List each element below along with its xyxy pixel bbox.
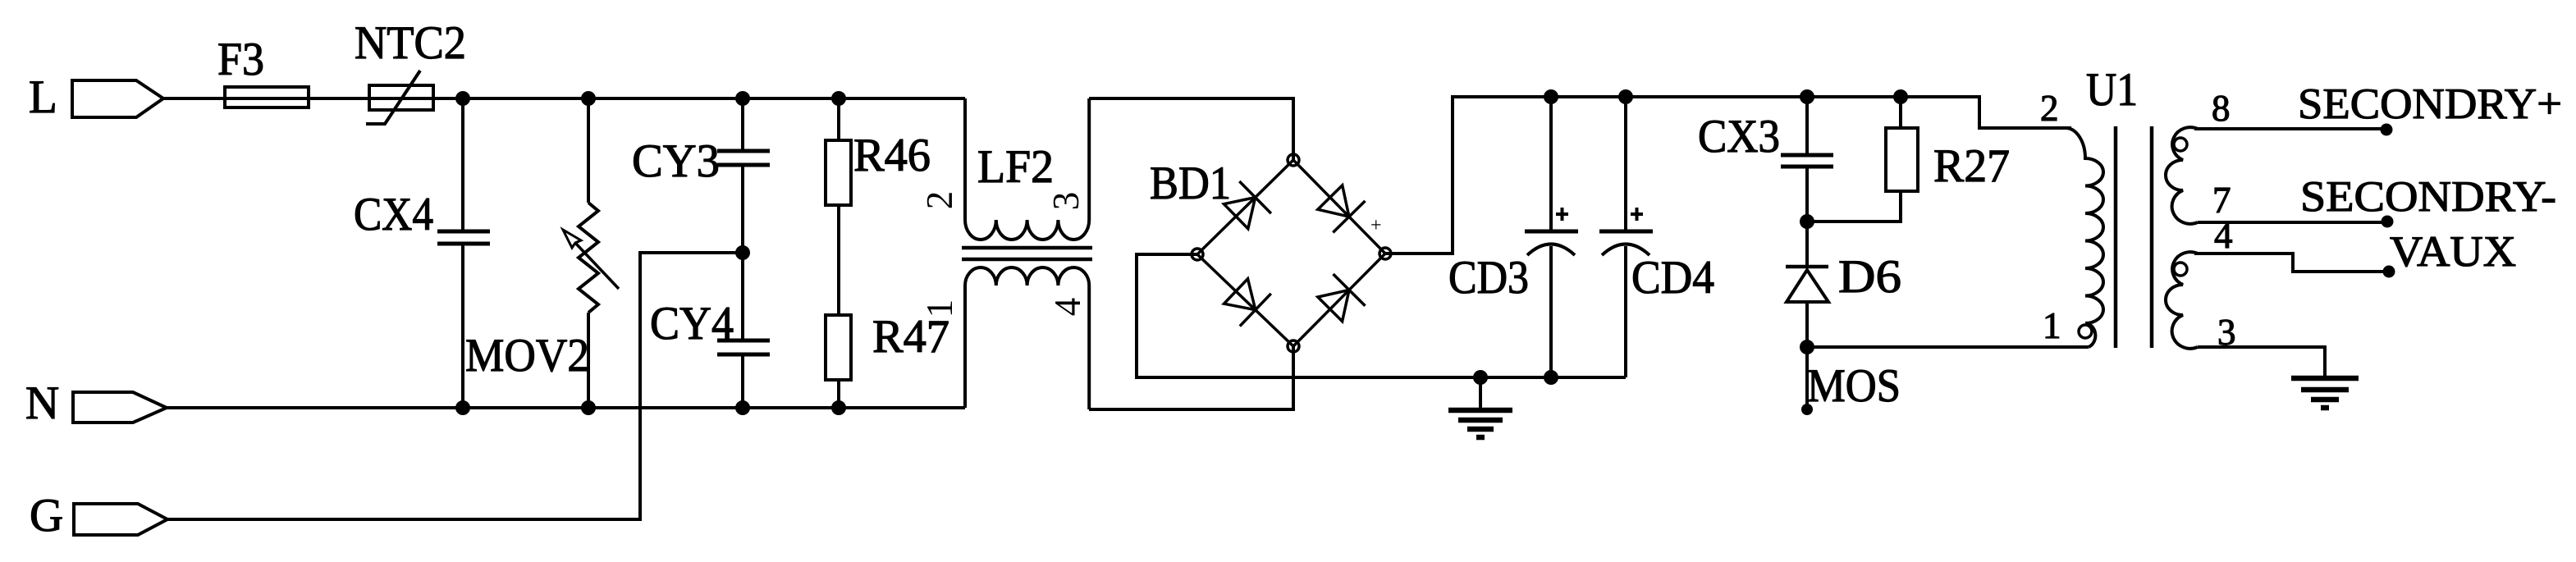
diode BD1 upper-right xyxy=(1318,185,1366,233)
junction dot CD4 top xyxy=(1618,89,1633,104)
svg-text:MOV2: MOV2 xyxy=(465,330,589,382)
svg-text:CX4: CX4 xyxy=(354,189,433,240)
resistor R27 xyxy=(1807,97,1918,222)
svg-text:BD1: BD1 xyxy=(1150,158,1231,209)
node SECONDRY- dot xyxy=(2382,216,2394,228)
U1 core xyxy=(2116,126,2152,348)
svg-text:R47: R47 xyxy=(872,311,949,363)
node VAUX dot xyxy=(2383,266,2395,278)
junction dot D6-pin1 xyxy=(1800,340,1814,354)
capacitor CD4 xyxy=(1599,97,1653,377)
wire pin7 SECONDRY- xyxy=(2198,221,2387,224)
wire pin3 to ground xyxy=(2198,347,2325,378)
capacitor CX4 xyxy=(437,98,490,408)
junction dot gnd xyxy=(1473,370,1488,385)
svg-text:+: + xyxy=(1370,215,1382,236)
wire bridge plus to top rail xyxy=(1385,97,2071,254)
node MOS terminal dot xyxy=(1801,404,1813,415)
junction dot R27 top xyxy=(1893,89,1908,104)
diode BD1 lower-right xyxy=(1318,274,1366,322)
svg-text:U1: U1 xyxy=(2086,64,2138,116)
U1 top secondary phase circle xyxy=(2174,138,2187,151)
junction dot CX3 top xyxy=(1800,89,1814,104)
wire N rail xyxy=(167,406,965,409)
ground primary xyxy=(1448,377,1512,437)
U1 pin1 phase circle xyxy=(2079,325,2092,338)
svg-text:CY3: CY3 xyxy=(632,135,720,187)
capacitor CX3 xyxy=(1781,97,1833,222)
diode D6 xyxy=(1786,222,1828,409)
junction dot CD3 bottom xyxy=(1544,370,1558,385)
svg-text:SECONDRY-: SECONDRY- xyxy=(2300,173,2556,221)
svg-text:1: 1 xyxy=(2043,305,2061,346)
thermistor NTC2 xyxy=(366,71,433,124)
inductor LF2 top winding xyxy=(965,98,1089,240)
svg-text:2: 2 xyxy=(2040,88,2059,129)
ground secondary xyxy=(2291,378,2359,408)
svg-text:F3: F3 xyxy=(217,34,264,85)
junction dot L-R46 xyxy=(831,91,846,106)
svg-text:NTC2: NTC2 xyxy=(355,17,466,69)
svg-text:4: 4 xyxy=(1047,298,1088,317)
wire pin8 SECONDRY+ xyxy=(2194,127,2386,130)
wire G to CY junction xyxy=(167,253,743,519)
svg-text:3: 3 xyxy=(1045,192,1087,211)
diode BD1 upper-left xyxy=(1224,181,1271,229)
wire pin4 VAUX xyxy=(2194,254,2389,272)
svg-text:CX3: CX3 xyxy=(1698,111,1780,162)
junction dot G-CY xyxy=(735,245,750,260)
fuse F3 xyxy=(225,87,309,107)
svg-text:D6: D6 xyxy=(1838,251,1901,303)
svg-text:SECONDRY+: SECONDRY+ xyxy=(2298,80,2562,128)
capacitor CY3 xyxy=(717,98,770,340)
bridge terminal top xyxy=(1288,154,1299,166)
connector L xyxy=(72,80,163,117)
wire LF2 pin3 to bridge top xyxy=(1089,98,1293,160)
bridge terminal left xyxy=(1192,249,1203,260)
junction dot CD3 top xyxy=(1544,89,1558,104)
wire MOS to U1 pin1 xyxy=(1807,345,2089,349)
svg-text:CD4: CD4 xyxy=(1631,252,1714,304)
junction dot N-R47 xyxy=(831,400,846,415)
svg-text:LF2: LF2 xyxy=(977,141,1054,193)
svg-text:N: N xyxy=(25,377,59,429)
resistor R46 xyxy=(826,98,851,315)
transformer U1 secondary bottom winding xyxy=(2166,252,2198,349)
junction dot CX3-R27 xyxy=(1800,214,1814,229)
transformer U1 primary winding xyxy=(2066,128,2103,347)
capacitor CD3 xyxy=(1525,97,1578,377)
svg-text:R46: R46 xyxy=(853,130,931,181)
svg-text:G: G xyxy=(30,490,63,541)
bridge terminal right xyxy=(1380,248,1391,259)
node SECONDRY+ dot xyxy=(2381,124,2393,136)
capacitor CY4 xyxy=(717,340,770,408)
transformer U1 secondary top winding xyxy=(2166,127,2198,224)
wire L rail xyxy=(163,97,965,100)
U1 bottom secondary phase circle xyxy=(2174,263,2187,276)
svg-text:MOS: MOS xyxy=(1807,360,1901,412)
svg-text:4: 4 xyxy=(2214,215,2233,256)
svg-text:CY4: CY4 xyxy=(650,298,734,350)
svg-text:8: 8 xyxy=(2212,88,2231,129)
connector G xyxy=(74,504,167,535)
svg-text:2: 2 xyxy=(919,191,960,210)
junction dot N-CX4 xyxy=(455,400,470,415)
junction dot N-MOV2 xyxy=(581,400,596,415)
junction dot L-CY3 xyxy=(735,91,750,106)
LF2 core xyxy=(962,248,1092,259)
svg-text:L: L xyxy=(29,71,57,123)
connector N xyxy=(73,392,167,423)
resistor R47 xyxy=(826,315,851,408)
inductor LF2 bottom winding xyxy=(965,267,1089,409)
junction dot L-MOV2 xyxy=(581,91,596,106)
svg-text:CD3: CD3 xyxy=(1448,252,1529,304)
svg-text:1: 1 xyxy=(919,299,960,318)
junction dot N-CY4 xyxy=(735,400,750,415)
bridge terminal bottom xyxy=(1288,340,1299,352)
varistor MOV2 xyxy=(563,98,619,408)
wire bridge minus rail xyxy=(1137,254,1626,377)
bridge BD1 diamond edges xyxy=(1197,160,1385,346)
svg-text:VAUX: VAUX xyxy=(2390,228,2516,276)
wire LF2 pin4 to bridge bottom xyxy=(1089,346,1293,409)
diode BD1 lower-left xyxy=(1224,279,1271,327)
junction dot L-CX4 xyxy=(455,91,470,106)
svg-text:R27: R27 xyxy=(1933,140,2010,192)
